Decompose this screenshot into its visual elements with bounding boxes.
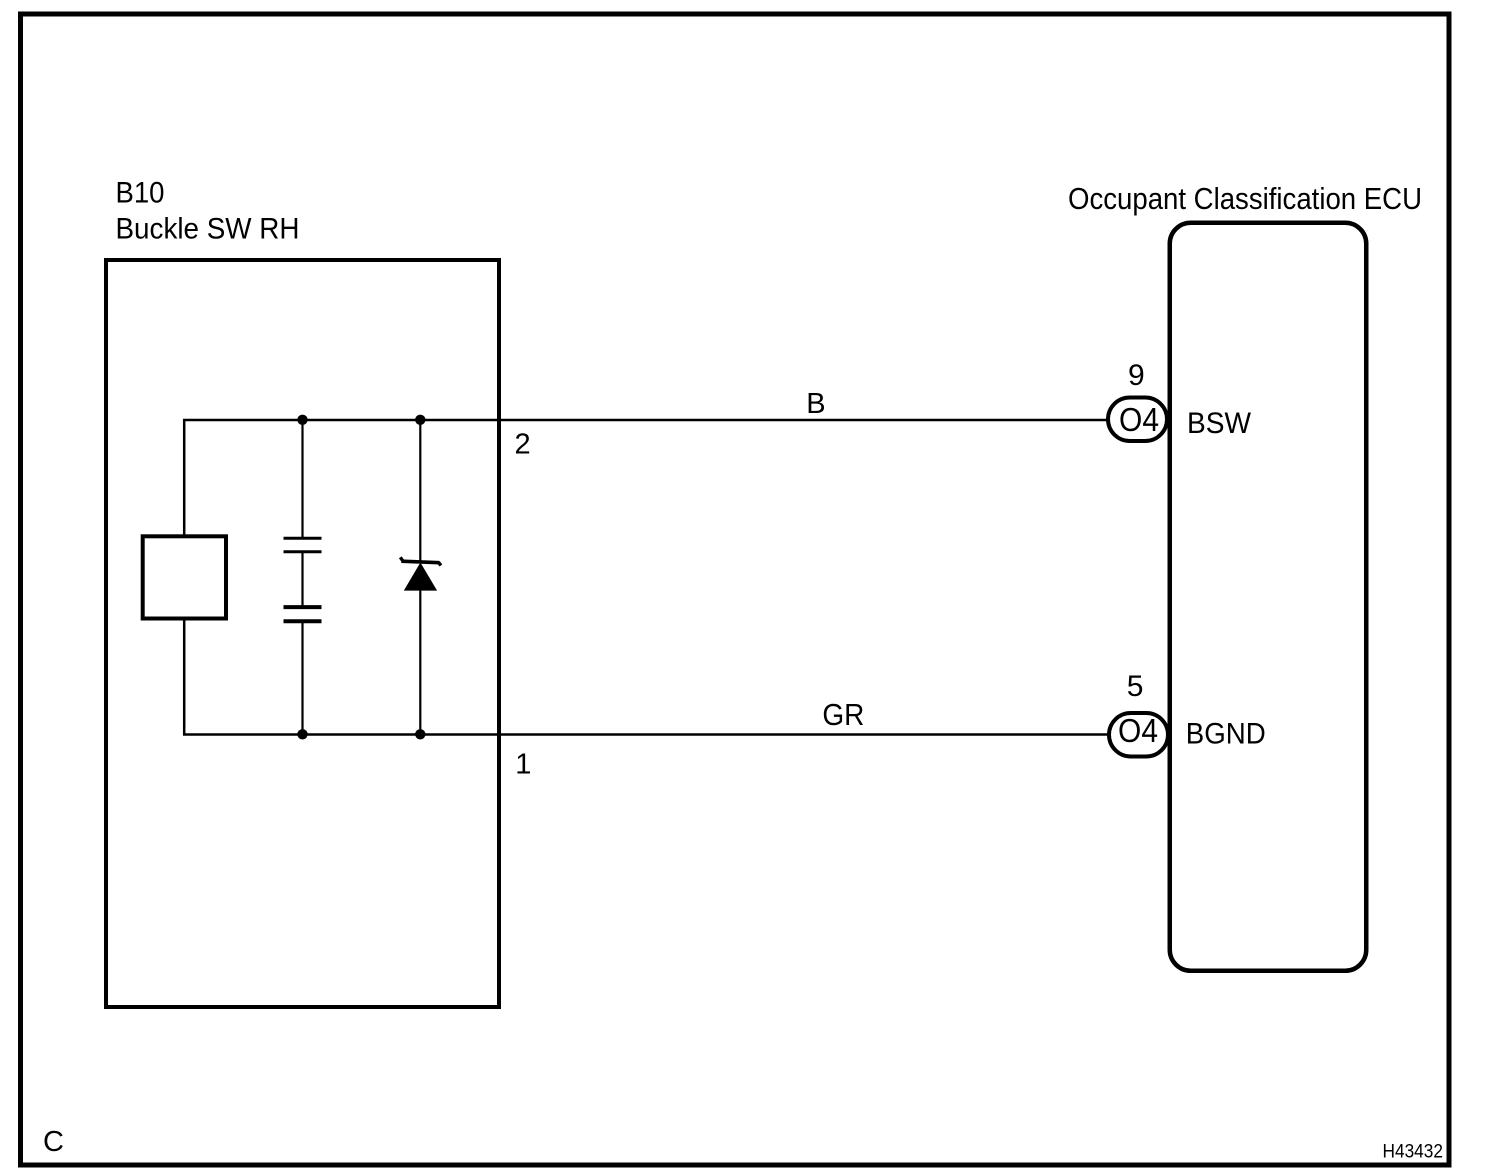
switch square: [143, 536, 226, 618]
junction dot bottom-left: [297, 729, 307, 739]
junction dot top-right: [415, 415, 425, 425]
wire capacitor column middle: [301, 552, 303, 607]
wire zener column upper: [419, 420, 421, 562]
svg-text:C: C: [43, 1126, 64, 1158]
wire bottom (GR line): [183, 733, 1110, 736]
capacitor C2 top plate: [284, 605, 322, 609]
zener diode triangle: [404, 563, 437, 591]
svg-text:5: 5: [1127, 670, 1144, 703]
svg-text:B: B: [806, 388, 825, 420]
svg-text:O4: O4: [1118, 712, 1158, 749]
junction dot bottom-right: [415, 729, 425, 739]
wire zener column lower: [419, 590, 421, 735]
svg-text:2: 2: [515, 429, 531, 461]
svg-text:9: 9: [1128, 359, 1145, 392]
ECU box: [1170, 223, 1367, 971]
svg-text:Occupant Classification ECU: Occupant Classification ECU: [1068, 181, 1422, 216]
wire capacitor column lower: [301, 622, 303, 735]
svg-text:1: 1: [515, 749, 531, 781]
zener diode cathode bar: [400, 557, 441, 565]
wire left vertical: [183, 420, 186, 735]
capacitor C1 top plate: [284, 537, 322, 540]
svg-text:BGND: BGND: [1186, 717, 1266, 750]
svg-text:GR: GR: [822, 697, 864, 732]
svg-text:BSW: BSW: [1187, 407, 1252, 440]
component box B10 Buckle SW RH: [106, 260, 499, 1007]
svg-text:B10: B10: [116, 177, 165, 210]
svg-text:H43432: H43432: [1383, 1141, 1444, 1163]
junction dot top-left: [297, 415, 307, 425]
connector oval O4 pin 9: [1108, 398, 1167, 442]
capacitor C1 bottom plate: [284, 550, 322, 553]
capacitor C2 bottom plate: [284, 619, 322, 623]
wire capacitor column upper: [301, 420, 303, 538]
svg-text:O4: O4: [1119, 401, 1159, 438]
svg-text:Buckle SW RH: Buckle SW RH: [116, 213, 300, 246]
connector oval O4 pin 5: [1109, 713, 1168, 757]
wire top (B line): [183, 419, 1110, 422]
